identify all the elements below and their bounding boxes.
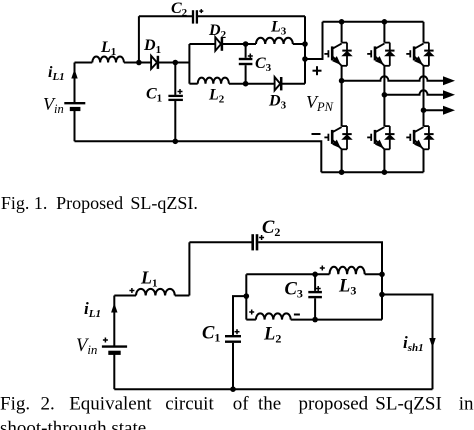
wire: C2 rail left segment (fig2) xyxy=(189,241,251,243)
wire: box bottom edge right segment (fig2) xyxy=(291,319,382,321)
wire: leg1 middle xyxy=(341,66,343,126)
node phase B junction dot xyxy=(382,92,388,98)
svg-text:C2: C2 xyxy=(262,218,280,239)
wire: riser up to C2 rail (fig2) xyxy=(188,242,190,295)
diode D1 xyxy=(151,56,158,69)
transistor S2 (leg3 bottom IGBT + diode) xyxy=(406,126,433,149)
wire: box bottom edge left stub xyxy=(189,83,197,85)
wire: leg1 bottom xyxy=(341,149,343,172)
wire: box left edge vertical xyxy=(188,44,190,84)
transistor S6 (leg2 bottom IGBT + diode) xyxy=(367,126,394,149)
svg-text:L1: L1 xyxy=(140,268,158,290)
arrowhead phase B xyxy=(443,90,455,99)
wire: C2 rail right segment (fig2) xyxy=(258,242,382,274)
wire: jog from box-left node to C1 (fig2) xyxy=(233,296,246,335)
node output junction dot (fig2) xyxy=(379,292,385,298)
wire: D1 to box left edge xyxy=(158,62,190,64)
plus sign before L1 (fig2) xyxy=(129,288,134,293)
current arrow ish1 (fig2) xyxy=(429,338,435,348)
junction dot top rail leg1 xyxy=(339,19,345,25)
wire: D2 to C3 top node xyxy=(222,43,256,45)
wire: leg3 bottom xyxy=(423,149,425,172)
caption Fig.2 line 1 xyxy=(0,394,474,415)
minus sign right of L2 (fig2) xyxy=(294,314,300,316)
battery Vin (fig2) xyxy=(102,347,127,353)
wire: fig1 bottom wire xyxy=(75,141,322,172)
current arrow iL1 (fig1) xyxy=(71,69,77,79)
wire: plus terminal wire to bridge xyxy=(305,22,323,59)
plus sign of Vin (fig2) xyxy=(103,338,108,343)
node C3-top junction dot xyxy=(243,41,249,47)
inductor L1 (fig1) xyxy=(92,57,124,63)
svg-text:2.: 2. xyxy=(41,394,55,415)
wire: fig2 left vertical bottom xyxy=(113,354,115,389)
plus sign left of L3 (fig2) xyxy=(320,266,325,271)
wire: bridge bottom rail xyxy=(321,171,423,173)
wire: leg1 collector stub top xyxy=(341,22,343,43)
svg-text:iL1: iL1 xyxy=(48,64,65,83)
transistor S1 (leg1 top IGBT + diode) xyxy=(324,43,351,66)
svg-text:Proposed: Proposed xyxy=(56,193,123,213)
arrowhead phase A xyxy=(443,76,455,85)
wire: fig1 left vertical (below battery to bottom wire) xyxy=(74,110,76,141)
diode D3 xyxy=(275,77,282,90)
wire: box right edge (fig2) xyxy=(381,274,383,319)
wire: bridge top rail xyxy=(323,21,424,23)
svg-text:C1: C1 xyxy=(146,86,162,105)
svg-text:circuit: circuit xyxy=(165,394,214,415)
plus sign of C2 (fig1) xyxy=(199,9,203,13)
wire: box top edge left segment xyxy=(189,43,215,45)
plus sign of C2 (fig2) xyxy=(259,235,264,240)
node C1-bottom junction dot xyxy=(173,139,179,145)
svg-text:C3: C3 xyxy=(255,55,272,74)
wire: leg3 middle xyxy=(423,66,425,126)
wire: leg3 collector stub top xyxy=(423,22,425,43)
caption Fig.1 xyxy=(1,193,198,213)
wire: fig1 left vertical (top part, Vin to main wire) xyxy=(74,63,76,104)
wire: phase B output with hop over leg3 xyxy=(384,90,444,95)
svg-text:L3: L3 xyxy=(270,19,287,38)
plus sign of C3 (fig1) xyxy=(248,54,253,59)
wire: C2 rail left segment xyxy=(139,15,192,17)
wire: L1 to node A xyxy=(124,62,151,64)
arrowhead phase C xyxy=(443,106,455,115)
svg-text:D1: D1 xyxy=(143,37,161,56)
svg-text:Equivalent: Equivalent xyxy=(69,394,152,415)
svg-text:SL-qZSI.: SL-qZSI. xyxy=(130,193,198,213)
node C1-bottom junction dot (fig2) xyxy=(230,386,236,392)
wire: phase A output with hops over leg2 and leg3 xyxy=(342,76,444,81)
wire: fig2 bottom wire xyxy=(114,388,432,390)
junction dot bottom rail leg1 xyxy=(339,169,345,175)
svg-text:Fig.: Fig. xyxy=(1,193,30,213)
svg-text:C1: C1 xyxy=(202,324,220,345)
wire: box top edge (fig2) xyxy=(246,273,329,275)
wire: C2 rail right segment xyxy=(198,15,305,17)
svg-text:the: the xyxy=(258,394,281,415)
node C3-top junction dot (fig2) xyxy=(312,272,318,278)
svg-text:proposed: proposed xyxy=(299,394,369,415)
label plus terminal xyxy=(313,66,322,75)
svg-text:of: of xyxy=(233,394,250,415)
svg-text:Vin: Vin xyxy=(43,94,64,116)
plus sign left of L2 (fig2) xyxy=(249,310,254,315)
svg-text:C2: C2 xyxy=(171,0,188,19)
svg-text:Vin: Vin xyxy=(76,336,97,357)
svg-text:Fig.: Fig. xyxy=(0,394,30,415)
inductor L2 (fig1) xyxy=(198,78,229,84)
transistor S4 (leg1 bottom IGBT + diode) xyxy=(324,126,351,149)
wire: box left edge (fig2) xyxy=(245,274,247,319)
wire: output wire right and down (fig2) xyxy=(382,295,433,390)
plus sign of C1 (fig1) xyxy=(178,89,183,94)
svg-text:SL-qZSI: SL-qZSI xyxy=(375,394,442,415)
inductor L2 (fig2) xyxy=(256,313,291,319)
wire: fig2 main wire to L1 xyxy=(114,295,136,297)
wire: leg2 bottom xyxy=(383,149,385,172)
wire: L1 to riser corner xyxy=(175,295,190,297)
svg-text:L1: L1 xyxy=(100,39,116,58)
capacitor C3 (fig2) xyxy=(308,274,322,319)
transistor S3 (leg2 top IGBT + diode) xyxy=(367,43,394,66)
svg-text:L2: L2 xyxy=(263,325,281,346)
diode D2 xyxy=(215,37,222,51)
wire: L3 to box right edge (fig2) xyxy=(365,273,382,275)
transistor S5 (leg3 top IGBT + diode) xyxy=(406,43,433,66)
plus sign of C1 (fig2) xyxy=(235,329,240,334)
svg-text:in: in xyxy=(459,394,474,415)
capacitor C3 (fig1) xyxy=(239,44,253,84)
junction dot top rail leg2 xyxy=(382,19,388,25)
svg-text:L2: L2 xyxy=(208,87,225,106)
node C2/L3 junction dot (fig2) xyxy=(379,272,385,278)
svg-text:ish1: ish1 xyxy=(403,333,424,354)
svg-text:VPN: VPN xyxy=(306,92,334,114)
inductor L1 (fig2) xyxy=(136,289,175,296)
inductor L3 (fig2) xyxy=(330,267,365,275)
wire: fig1 main wire from left vertical to L1 xyxy=(75,62,93,64)
junction dot bottom rail leg2 xyxy=(382,169,388,175)
node + junction dot xyxy=(302,56,308,62)
wire: L3 to right vertical xyxy=(293,43,305,45)
wire: D3 to right vertical xyxy=(281,83,305,85)
svg-text:C3: C3 xyxy=(285,280,303,301)
inductor L3 (fig1) xyxy=(256,38,293,44)
wire: box bottom edge left stub (fig2) xyxy=(246,319,256,321)
node phase A junction dot xyxy=(339,78,345,84)
wire: fig2 left vertical top (main wire to battery) xyxy=(113,296,115,347)
node A junction dot xyxy=(136,60,142,66)
node B junction dot (D1 cathode / C1 top) xyxy=(173,60,179,66)
svg-text:D3: D3 xyxy=(268,93,287,112)
plus sign of C3 (fig2) xyxy=(316,286,321,291)
wire: leg2 collector stub top xyxy=(383,22,385,43)
wire: phase C output xyxy=(424,109,445,111)
wire: node A up to C2 rail xyxy=(138,16,140,62)
svg-text:D2: D2 xyxy=(208,22,227,41)
svg-text:iL1: iL1 xyxy=(84,299,101,320)
node C3-bottom junction dot (fig2) xyxy=(312,317,318,323)
svg-text:shoot-through state.: shoot-through state. xyxy=(0,418,151,430)
battery Vin (fig1) xyxy=(64,103,85,109)
node phase C junction dot xyxy=(421,107,427,113)
label minus terminal xyxy=(312,133,321,135)
node box-left junction dot (fig2) xyxy=(244,293,250,299)
node P junction dot (top of right vertical at L3) xyxy=(302,41,308,47)
wire: right vertical of qZS network xyxy=(304,16,306,84)
current arrow iL1 (fig2) xyxy=(111,303,117,313)
wire: leg2 middle xyxy=(383,66,385,126)
capacitor C1 (fig2) xyxy=(225,336,241,389)
capacitor C2 (fig2) xyxy=(253,234,257,250)
node C3-bottom junction dot xyxy=(243,81,249,87)
capacitor C2 (fig1) xyxy=(193,10,197,23)
svg-text:L3: L3 xyxy=(338,277,356,298)
wire: L2 to D3 xyxy=(229,83,275,85)
capacitor C1 (fig1) xyxy=(168,63,183,142)
svg-text:1.: 1. xyxy=(34,193,48,213)
